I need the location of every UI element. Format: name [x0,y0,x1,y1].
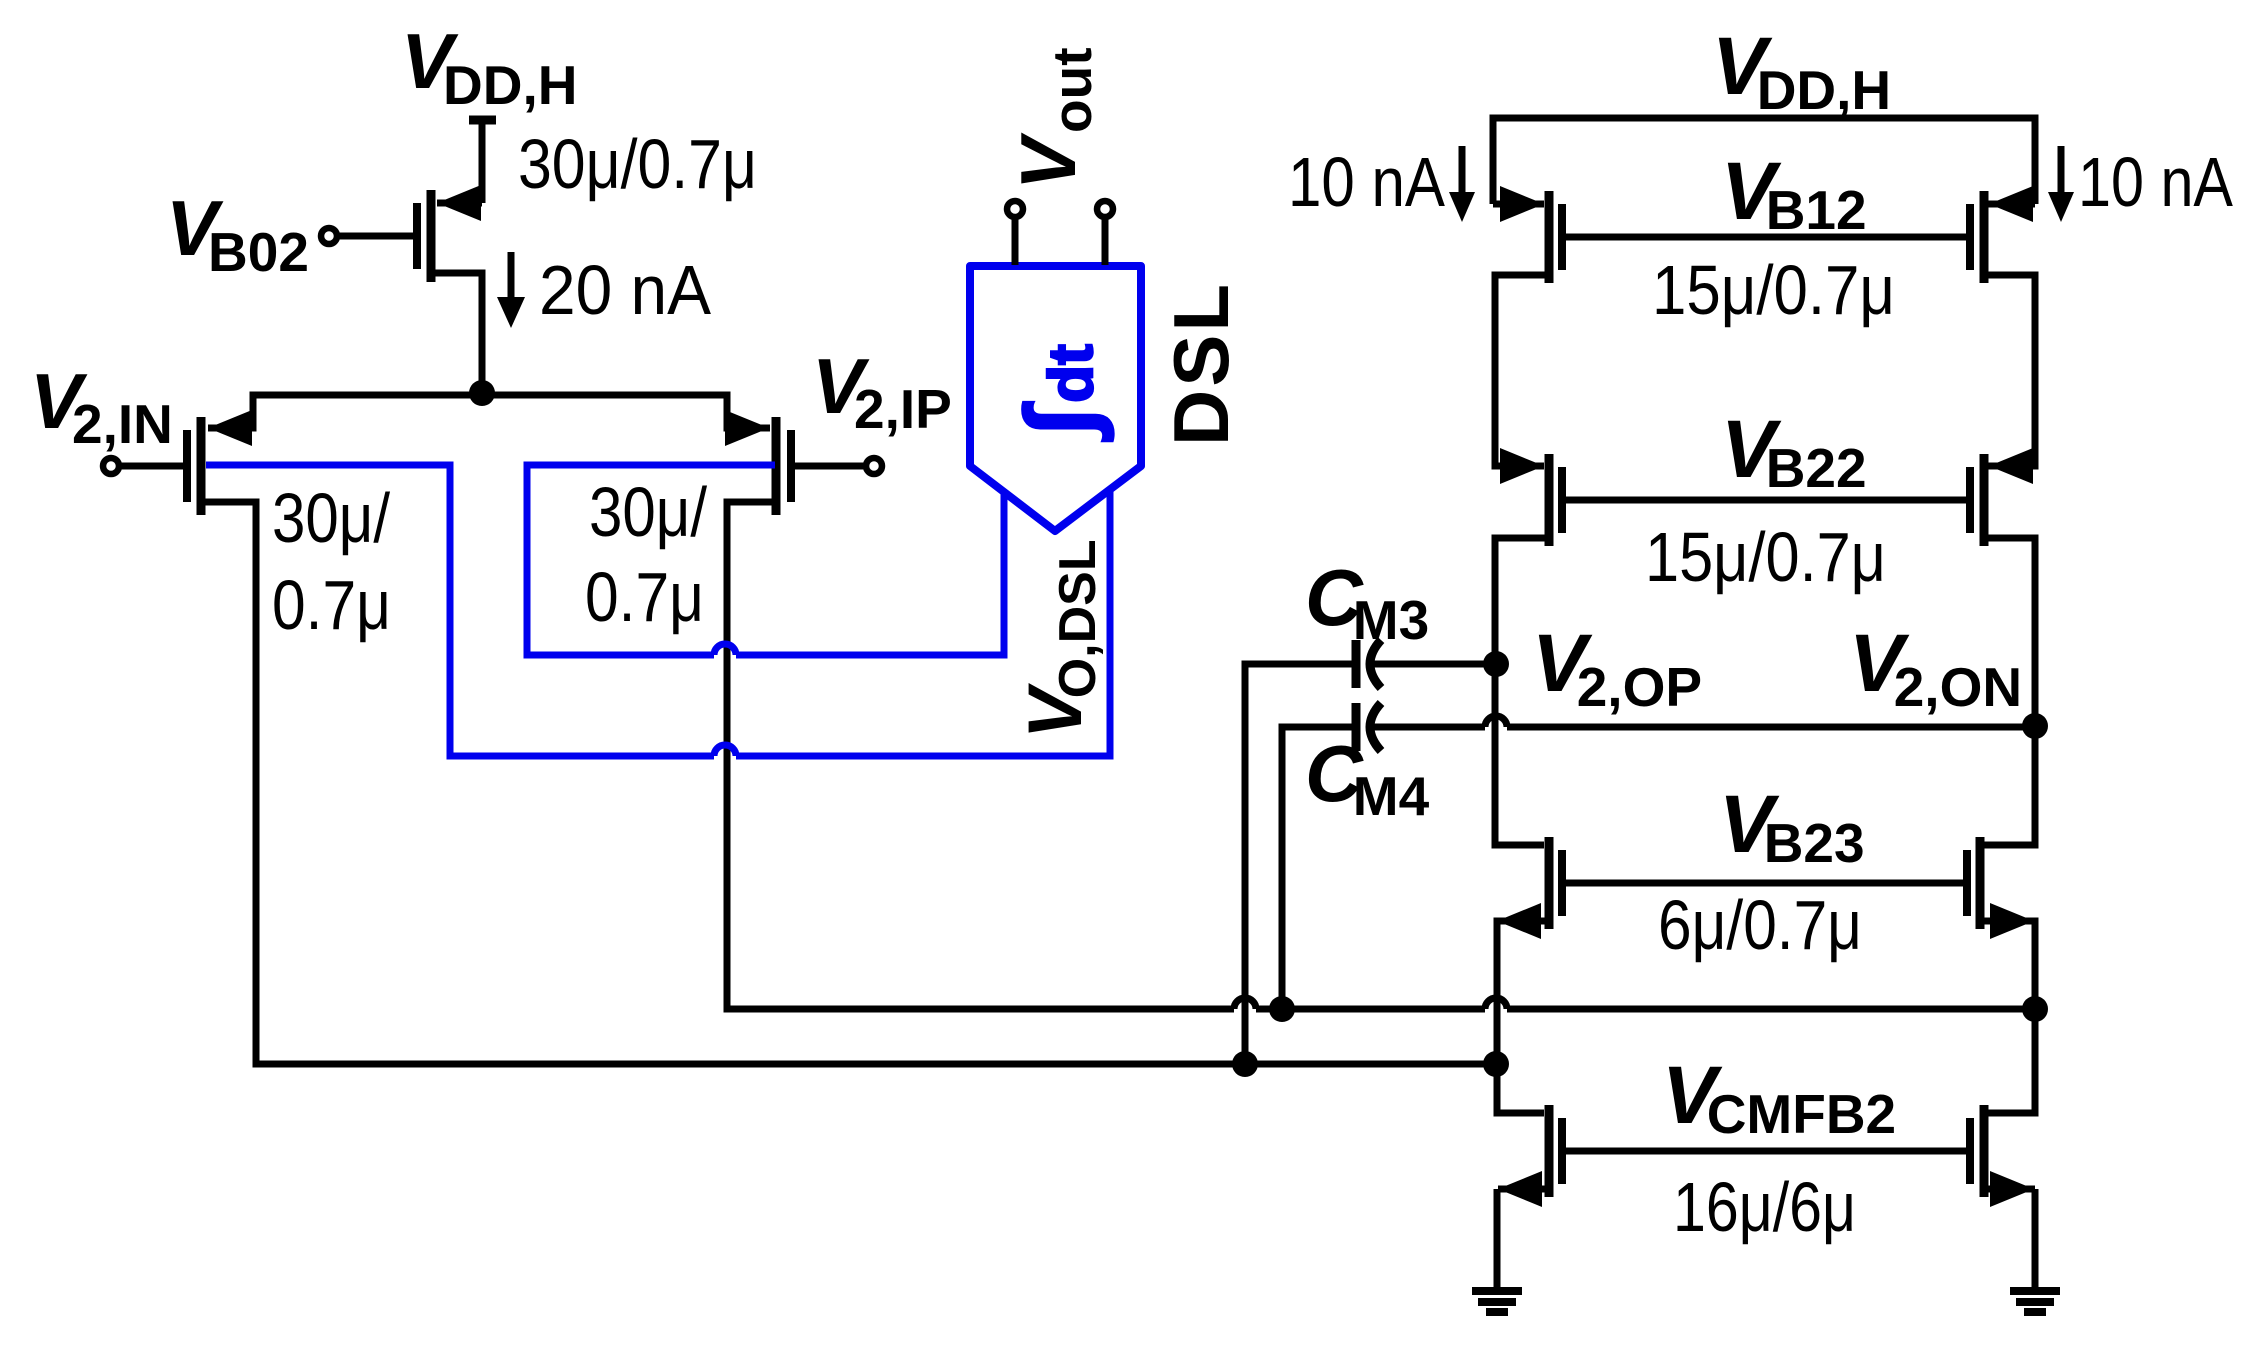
integrator block DSL (pentagon) [970,266,1141,531]
junction dot tail node [469,380,495,406]
wire hop at left cascode column [1485,998,1507,1009]
transistor M4 (V_B12 right cascode PMOS 15u/0.7u) [1980,191,1989,283]
junction dot C_M3 riser to left folding node [1232,1051,1258,1077]
svg-text:DSL: DSL [1157,281,1245,446]
wire M2 drain to right folding node (hops over C_M3 and left column) [727,502,2035,1009]
capacitor C_M3 curved plate [1370,640,1381,688]
svg-text:10 nA: 10 nA [1288,143,1445,221]
power symbol V_DD,H bar (left) [469,116,496,125]
svg-text:15μ/0.7μ: 15μ/0.7μ [1652,251,1895,329]
current arrow 20 nA [508,252,515,300]
svg-text:30μ/: 30μ/ [589,473,707,551]
wire hop at C_M3 riser [1234,998,1256,1009]
terminal V_2,IN [120,463,183,470]
capacitor C_M4 flat plate [1352,703,1361,751]
junction dot C_M4 riser to right folding node [1269,996,1295,1022]
transistor M1 (V_2,IN input PMOS 30u/0.7u) [197,417,206,515]
capacitor C_M3 (left plate wire and riser) [1245,664,1352,1064]
transistor M0 (V_B02 tail current source, PMOS 30u/0.7u) [427,190,436,282]
capacitor C_M3 flat plate [1352,640,1361,688]
terminal V_out pin 2 [1102,218,1109,265]
wire gate line V_B22 [1566,497,1966,504]
wire V_DD,H bar to M0 source [479,120,486,203]
blue wire DSL left output to M2 bulk (hops over M2 drain) [527,465,1004,655]
node V_2,OP junction dot [1483,651,1509,677]
transistor M10 (V_CMFB2 right NMOS 16u/6u) [1980,1105,1989,1197]
junction dot right folding node at right column [2022,996,2048,1022]
svg-text:30μ/0.7μ: 30μ/0.7μ [518,125,757,203]
wire C_M4 to node V_2,ON (hops over left column) [1370,724,2035,731]
svg-text:16μ/6μ: 16μ/6μ [1673,1168,1856,1246]
transistor M7 (V_B23 left cascode NMOS 6u/0.7u) [1545,837,1554,929]
transistor M5 (V_B22 left cascode PMOS 15u/0.7u) [1545,454,1554,546]
wire hop blue over M2 drain riser [714,745,736,756]
svg-text:10 nA: 10 nA [2078,143,2233,221]
svg-text:0.7μ: 0.7μ [272,566,391,644]
blue wire DSL right output to M1 bulk (hops over M2 drain) [206,465,1110,756]
wire gate line V_CMFB2 [1566,1148,1966,1155]
svg-text:15μ/0.7μ: 15μ/0.7μ [1645,518,1886,596]
wire C_M3 to node V_2,OP [1370,661,1496,668]
wire common source rail of differential pair [208,395,770,428]
wire V_DD,H top rail [1493,118,2035,204]
terminal V_2,IP [795,463,864,470]
svg-text:30μ/: 30μ/ [272,479,390,557]
wire gate line V_B12 [1566,234,1966,241]
capacitor C_M4 (left plate wire and riser) [1282,727,1352,1009]
wire hop blue over M2 drain riser [714,644,736,655]
transistor M6 (V_B22 right cascode PMOS 15u/0.7u) [1980,454,1989,546]
current arrow 10 nA (left branch) [1459,146,1466,192]
terminal V_out pin 1 [1012,218,1019,265]
transistor M3 (V_B12 left cascode PMOS 15u/0.7u) [1545,191,1554,283]
wire gate line V_B23 [1566,880,1963,887]
current arrow 10 nA (right branch) [2058,146,2065,192]
svg-text:20 nA: 20 nA [539,251,711,329]
capacitor C_M4 curved plate [1370,703,1381,751]
wire hop C_M4 over left column [1485,716,1507,727]
junction dot left folding node at left column [1483,1051,1509,1077]
svg-text:0.7μ: 0.7μ [585,558,704,636]
wire M1 drain to left folding node (long net) [203,502,1496,1064]
svg-text:6μ/0.7μ: 6μ/0.7μ [1658,886,1862,964]
ground symbol (right) [2010,1291,2060,1312]
terminal V_B02 [338,233,414,240]
transistor M8 (V_B23 right cascode NMOS 6u/0.7u) [1976,837,1985,929]
transistor M9 (V_CMFB2 left NMOS 16u/6u) [1545,1105,1554,1197]
node V_2,ON junction dot [2022,713,2048,739]
transistor M2 (V_2,IP input PMOS 30u/0.7u) [772,417,781,515]
ground symbol (left) [1472,1291,1522,1312]
